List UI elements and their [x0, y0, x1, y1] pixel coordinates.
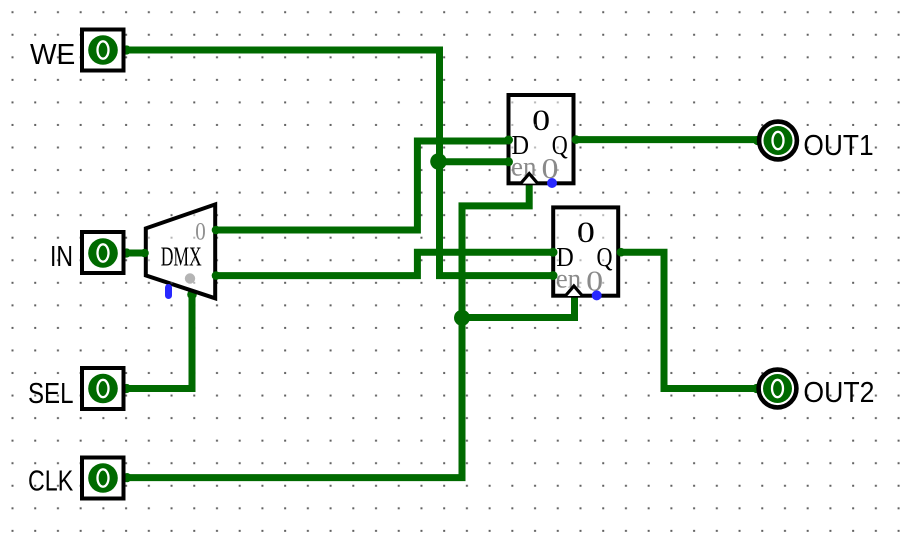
svg-text:CLK: CLK [28, 466, 73, 498]
svg-text:WE: WE [30, 39, 75, 71]
svg-text:SEL: SEL [28, 378, 74, 410]
svg-text:OUT1: OUT1 [803, 130, 873, 162]
svg-text:IN: IN [50, 241, 73, 273]
svg-text:OUT2: OUT2 [803, 377, 874, 409]
